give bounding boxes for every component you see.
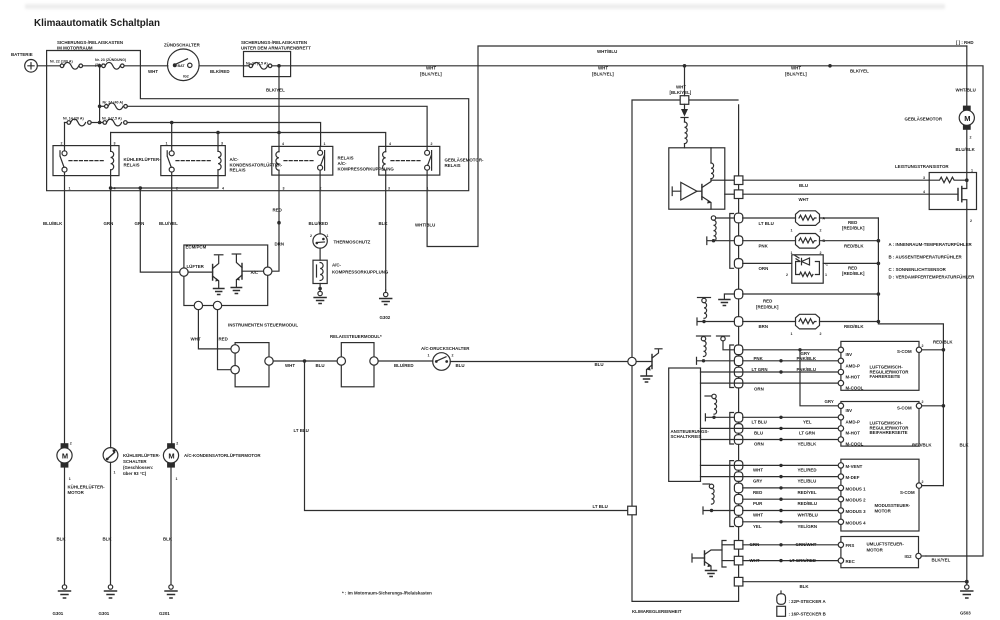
svg-text:RED: RED bbox=[763, 299, 772, 304]
svg-text:YEL/BLK: YEL/BLK bbox=[798, 442, 818, 447]
wire RED ECM to instrument module bbox=[218, 310, 231, 370]
node GRY branch bbox=[798, 348, 801, 351]
node BLK/YEL tap bbox=[277, 64, 281, 68]
pin REC row (square) bbox=[734, 556, 743, 565]
svg-text:WHT: WHT bbox=[285, 363, 295, 368]
node splice modus2 bbox=[779, 498, 782, 501]
node splice RED/DRN bbox=[277, 221, 281, 225]
wire ORN row bbox=[701, 382, 841, 384]
wire row B to return bus bbox=[820, 240, 879, 242]
svg-text:RED: RED bbox=[753, 490, 762, 495]
svg-text:M-COOL: M-COOL bbox=[846, 385, 864, 390]
svg-text:1: 1 bbox=[825, 273, 827, 277]
radiator fan switch S4 bbox=[103, 448, 161, 476]
svg-text:AMD-P: AMD-P bbox=[846, 363, 860, 368]
node splice WHT to BLK/YEL bbox=[828, 64, 832, 68]
svg-text:2: 2 bbox=[922, 400, 924, 404]
svg-text:2: 2 bbox=[820, 229, 822, 233]
pull-up R5 evaporator bbox=[697, 298, 734, 326]
wire MODUS4 row bbox=[743, 521, 841, 523]
svg-text:BLK: BLK bbox=[163, 537, 173, 542]
pin BLU row bbox=[734, 424, 742, 434]
legend 16P connector bbox=[777, 606, 826, 616]
node splice REC bbox=[779, 559, 782, 562]
svg-text:BLK: BLK bbox=[103, 537, 113, 542]
relay K2 A/C-Kondensatorlüfterrelais bbox=[161, 141, 283, 190]
air mix motor driver side U6 bbox=[838, 341, 923, 390]
svg-text:[BLK/YEL]: [BLK/YEL] bbox=[785, 72, 807, 77]
svg-text:2: 2 bbox=[786, 273, 788, 277]
node splice modus1 bbox=[779, 486, 782, 489]
svg-text:M-DEF: M-DEF bbox=[846, 475, 860, 480]
wire output BLU to pin bbox=[725, 179, 734, 181]
node rail2 tap bbox=[98, 121, 102, 125]
svg-text:INSTRUMENTEN STEUERMODUL: INSTRUMENTEN STEUERMODUL bbox=[228, 323, 298, 328]
wire WHT to power transistor bbox=[743, 193, 929, 195]
svg-text:WHT: WHT bbox=[750, 558, 760, 563]
pin sensor B bbox=[734, 236, 742, 246]
ground G503 bbox=[960, 582, 973, 616]
svg-text:Nr. 14 (20 A): Nr. 14 (20 A) bbox=[63, 117, 84, 121]
engine fuse/relay box outline bbox=[47, 51, 469, 191]
wire REC row bbox=[743, 560, 841, 562]
svg-text:WHT: WHT bbox=[426, 66, 436, 71]
svg-text:* : Im Motorraum-Sicherungs-/R: * : Im Motorraum-Sicherungs-/Relaiskaste… bbox=[342, 591, 432, 596]
svg-text:WHT: WHT bbox=[598, 66, 608, 71]
svg-text:KÜHLERLÜFTER-: KÜHLERLÜFTER- bbox=[124, 157, 162, 162]
svg-text:BLU/RED: BLU/RED bbox=[309, 221, 329, 226]
fuse Nr.22 (100A) bbox=[50, 60, 101, 70]
svg-text:[RED/BLK]: [RED/BLK] bbox=[756, 305, 779, 310]
svg-text:3: 3 bbox=[114, 141, 116, 145]
svg-text:BLK/RED: BLK/RED bbox=[210, 69, 230, 74]
wire fan motor to ground bbox=[64, 468, 66, 585]
svg-text:2: 2 bbox=[970, 219, 972, 223]
internal ground sensor ref bbox=[719, 294, 734, 306]
svg-text:1: 1 bbox=[166, 141, 168, 145]
svg-text:LT BLU: LT BLU bbox=[593, 504, 608, 509]
wire GRN relay1 coil to fan switch bbox=[110, 188, 112, 448]
pin unit BLU input bbox=[628, 357, 636, 365]
node splice LT GRN bbox=[779, 370, 782, 373]
svg-text:2: 2 bbox=[922, 480, 924, 484]
svg-text:AMD-P: AMD-P bbox=[846, 419, 860, 424]
pin unit BLK (square) bbox=[734, 577, 743, 586]
ground G302 bbox=[380, 290, 392, 320]
svg-text:RED: RED bbox=[848, 220, 857, 225]
svg-text:A : INNENRAUM-TEMPERATURFÜHLER: A : INNENRAUM-TEMPERATURFÜHLER bbox=[889, 242, 973, 247]
climate control unit box bbox=[632, 100, 739, 601]
wire row C to return bus bbox=[823, 262, 878, 264]
svg-text:KLIMAREGLEREINHEIT: KLIMAREGLEREINHEIT bbox=[632, 609, 682, 614]
svg-text:D : VERDAMPFERTEMPERATURFÜHLER: D : VERDAMPFERTEMPERATURFÜHLER bbox=[889, 275, 976, 280]
svg-text:RED/BLK: RED/BLK bbox=[933, 340, 953, 345]
svg-text:RED/BLU: RED/BLU bbox=[798, 501, 818, 506]
wire drop from ignition feed bbox=[684, 66, 686, 96]
svg-text:A/C-: A/C- bbox=[332, 263, 342, 268]
svg-text:(Geschlossen:: (Geschlossen: bbox=[123, 465, 154, 470]
svg-text:BLK: BLK bbox=[379, 221, 389, 226]
svg-text:G201: G201 bbox=[159, 611, 170, 616]
svg-text:[BLK/YEL]: [BLK/YEL] bbox=[592, 72, 614, 77]
svg-text:1: 1 bbox=[69, 477, 71, 481]
svg-text:Nr. 23 (ZÜNDUNG): Nr. 23 (ZÜNDUNG) bbox=[95, 57, 127, 62]
wire S-COM1 to bus bbox=[922, 349, 943, 351]
relay K1 Kühlerlüfter-Relais bbox=[53, 141, 161, 190]
transistor Q1 ECM fan driver bbox=[188, 255, 224, 295]
svg-text:A/C-DRUCKSCHALTER: A/C-DRUCKSCHALTER bbox=[421, 346, 470, 351]
svg-text:IM MOTORRAUM: IM MOTORRAUM bbox=[57, 46, 93, 51]
wire M-DEF row bbox=[701, 476, 841, 478]
resistor R3 kick-down bbox=[929, 177, 966, 183]
node coil bus left bbox=[109, 186, 113, 190]
svg-text:WHT: WHT bbox=[753, 467, 763, 472]
svg-text:RELAISSTEUERMODUL*: RELAISSTEUERMODUL* bbox=[330, 334, 382, 339]
pin LT BLU row bbox=[734, 413, 742, 423]
svg-text:PUR: PUR bbox=[753, 501, 763, 506]
svg-text:GRN/WHT: GRN/WHT bbox=[796, 542, 817, 547]
node splice LT BLU bbox=[779, 416, 782, 419]
pin ORN2 row bbox=[734, 435, 742, 445]
node splice BLU bbox=[779, 427, 782, 430]
svg-text:S-COM: S-COM bbox=[897, 349, 912, 354]
svg-text:C : SONNENLICHTSENSOR: C : SONNENLICHTSENSOR bbox=[889, 267, 947, 272]
wire relay3 coil feed bbox=[278, 133, 280, 147]
node splice FRS bbox=[779, 543, 782, 546]
ground G301 b bbox=[99, 585, 117, 616]
svg-text:BLU: BLU bbox=[754, 430, 763, 435]
svg-text:RED/YEL: RED/YEL bbox=[798, 490, 817, 495]
sensor pull-up R4 bbox=[711, 216, 734, 241]
instrument control module U3 bbox=[228, 323, 298, 387]
svg-text:WHT: WHT bbox=[791, 66, 801, 71]
bracket group1 connector bbox=[730, 345, 734, 388]
node pull-up to PNK row bbox=[712, 239, 715, 242]
fuse Nr.14 (20A) bbox=[63, 117, 100, 126]
svg-text:YEL/RED: YEL/RED bbox=[798, 467, 817, 472]
svg-text:1: 1 bbox=[791, 332, 793, 336]
svg-text:MODUS 3: MODUS 3 bbox=[846, 509, 867, 514]
svg-text:: 16P-STECKER B: : 16P-STECKER B bbox=[789, 612, 826, 617]
supply bar sensor rows bbox=[707, 237, 735, 245]
svg-text:RED/BLK: RED/BLK bbox=[912, 443, 932, 448]
diode D1 bbox=[681, 104, 688, 122]
svg-text:BLU: BLU bbox=[316, 363, 325, 368]
svg-text:: 22P-STECKER A: : 22P-STECKER A bbox=[789, 599, 827, 604]
thermistor D evaporator temp bbox=[791, 314, 822, 336]
svg-text:PNK: PNK bbox=[754, 356, 764, 361]
svg-text:GRN: GRN bbox=[135, 221, 145, 226]
svg-text:THERMOSCHUTZ: THERMOSCHUTZ bbox=[334, 240, 371, 245]
svg-text:YEL/GRN: YEL/GRN bbox=[798, 524, 818, 529]
svg-text:A/C-KONDENSATORLÜFTERMOTOR: A/C-KONDENSATORLÜFTERMOTOR bbox=[184, 453, 261, 458]
svg-text:BATTERIE: BATTERIE bbox=[11, 52, 33, 57]
svg-text:WHT: WHT bbox=[148, 69, 158, 74]
bracket group3 connector bbox=[730, 461, 734, 527]
svg-text:GRN: GRN bbox=[104, 221, 114, 226]
pin PNK row bbox=[734, 356, 742, 366]
svg-text:2: 2 bbox=[922, 344, 924, 348]
power transistor module U5 bbox=[895, 164, 977, 223]
condenser fan motor M2 bbox=[163, 442, 261, 482]
wire row E to return bus bbox=[820, 321, 879, 323]
resistor R1 dropper bbox=[685, 122, 688, 148]
svg-text:REC: REC bbox=[846, 559, 856, 564]
amplifier circuit box bbox=[669, 148, 725, 209]
wire BLK relay4 coil to ground bbox=[385, 175, 387, 290]
pin MODUS4 row bbox=[734, 517, 742, 527]
pull-up R7 GRY feed bbox=[717, 336, 735, 350]
svg-text:BLU/RED: BLU/RED bbox=[394, 363, 414, 368]
svg-text:KÜHLERLÜFTER-: KÜHLERLÜFTER- bbox=[68, 485, 106, 490]
svg-text:UNTER DEM ARMATURENBRETT: UNTER DEM ARMATURENBRETT bbox=[241, 46, 311, 51]
node LT BLU tap bbox=[303, 359, 307, 363]
svg-text:RED: RED bbox=[219, 337, 228, 342]
mode control motor U8 bbox=[838, 459, 923, 531]
wire WHT ECM to instrument module bbox=[198, 310, 231, 349]
wire condenser fan to ground bbox=[170, 468, 172, 585]
wire LT BLU row bbox=[743, 416, 841, 418]
wire MODUS2 row bbox=[743, 498, 841, 500]
svg-text:LT BLU: LT BLU bbox=[759, 221, 774, 226]
fuse Nr.24 (40A) bbox=[100, 101, 128, 110]
wire BLU/RED relay3 to thermoschutz bbox=[319, 175, 321, 234]
sensor legend bbox=[889, 242, 976, 280]
wire BLU/YEL relay2 to condenser fan bbox=[171, 176, 173, 444]
A/C compressor clutch coil L1 bbox=[313, 260, 389, 288]
svg-text:BLK: BLK bbox=[960, 443, 970, 448]
pin ECM WHT out bbox=[194, 301, 202, 309]
svg-text:SCHALTER: SCHALTER bbox=[123, 459, 147, 464]
resistor R2 pull-up bbox=[711, 148, 714, 179]
wire RED/DRN relay3 coil to ECM bbox=[272, 175, 279, 271]
node clutch ground bbox=[318, 287, 322, 291]
ECM/PCM U2 bbox=[180, 245, 272, 306]
svg-text:A/C-: A/C- bbox=[338, 161, 348, 166]
wire FRS row bbox=[743, 544, 841, 546]
svg-text:RED/BLK: RED/BLK bbox=[844, 324, 864, 329]
svg-text:RED: RED bbox=[273, 208, 282, 213]
node relay2 coil tap bbox=[216, 131, 220, 135]
svg-text:MODUS 4: MODUS 4 bbox=[846, 520, 867, 525]
svg-text:LT BLU: LT BLU bbox=[294, 428, 309, 433]
wire BLU row bbox=[701, 427, 841, 429]
recirculation motor U9 bbox=[838, 537, 921, 568]
node row E return bbox=[877, 320, 881, 324]
svg-text:GEBLÄSEMOTOR: GEBLÄSEMOTOR bbox=[905, 117, 943, 122]
pin ECM RED out bbox=[213, 301, 221, 309]
node drop to climate unit bbox=[683, 64, 687, 68]
svg-text:MODUSSTEUER-: MODUSSTEUER- bbox=[875, 503, 911, 508]
pin unit LT BLU (square) bbox=[628, 506, 637, 515]
sunlight sensor C bbox=[786, 255, 829, 283]
svg-text:KOMPRESSORKUPPLUNG: KOMPRESSORKUPPLUNG bbox=[332, 270, 389, 275]
wire fan switch to ground bbox=[110, 462, 112, 584]
pin FRS row (square) bbox=[734, 541, 743, 550]
svg-text:MOTOR: MOTOR bbox=[875, 509, 892, 514]
svg-text:S-COM: S-COM bbox=[897, 406, 912, 411]
svg-text:S-COM: S-COM bbox=[900, 490, 915, 495]
svg-text:[RED/BLK]: [RED/BLK] bbox=[842, 226, 865, 231]
pin M-VENT row bbox=[734, 461, 742, 471]
svg-text:YEL/BLU: YEL/BLU bbox=[798, 479, 817, 484]
svg-text:MODUS 1: MODUS 1 bbox=[846, 486, 867, 491]
transistor Q3 output bbox=[702, 179, 725, 210]
wire vertical feed x99.6 bbox=[99, 66, 101, 123]
node splice m-def bbox=[779, 475, 782, 478]
svg-text:BRN: BRN bbox=[759, 324, 769, 329]
svg-text:M-HOT: M-HOT bbox=[846, 375, 861, 380]
svg-text:BLU/BLK: BLU/BLK bbox=[43, 221, 63, 226]
wire row C bbox=[743, 262, 792, 264]
wire WHT/BLU relay4 up to blower feed bbox=[427, 46, 967, 247]
svg-text:WHT/BLU: WHT/BLU bbox=[415, 223, 435, 228]
wire S-COM2 to bus bbox=[922, 405, 943, 407]
svg-text:BLK: BLK bbox=[57, 537, 67, 542]
node coil bus ECM tap bbox=[139, 186, 143, 190]
svg-text:[ ] : RHD: [ ] : RHD bbox=[956, 40, 974, 45]
pin ORN row bbox=[734, 378, 742, 388]
wire GRN to ECM fan pin bbox=[140, 188, 179, 272]
svg-text:G302: G302 bbox=[380, 315, 391, 320]
wire REC stub bbox=[722, 560, 734, 562]
pin sensor E bbox=[734, 317, 742, 327]
svg-text:BLK: BLK bbox=[800, 584, 810, 589]
svg-text:MOTOR: MOTOR bbox=[68, 490, 85, 495]
svg-text:LT GRN: LT GRN bbox=[799, 430, 815, 435]
svg-text:RELAIS: RELAIS bbox=[124, 163, 140, 168]
svg-text:1: 1 bbox=[971, 169, 973, 173]
svg-text:G301: G301 bbox=[53, 611, 64, 616]
wire relay2 contact feed bbox=[171, 123, 173, 147]
node splice PNK bbox=[779, 359, 782, 362]
svg-text:BLU: BLU bbox=[456, 363, 465, 368]
transistor Q4 power FET bbox=[929, 180, 967, 209]
svg-text:FAHRERSEITE: FAHRERSEITE bbox=[870, 374, 901, 379]
svg-text:2: 2 bbox=[61, 141, 63, 145]
wire LT GRN row bbox=[701, 371, 841, 373]
pin GRY row bbox=[734, 345, 742, 355]
svg-text:1: 1 bbox=[327, 234, 329, 238]
svg-text:IG2: IG2 bbox=[183, 75, 189, 79]
pin MODUS2 row bbox=[734, 494, 742, 504]
svg-text:G301: G301 bbox=[99, 611, 110, 616]
svg-text:WHT/BLU: WHT/BLU bbox=[597, 49, 617, 54]
pin unit WHT out (square) bbox=[734, 190, 743, 199]
svg-text:BAT: BAT bbox=[178, 64, 186, 68]
wire row A to thermistor bbox=[743, 217, 796, 219]
wire relay1 coil feed bbox=[110, 133, 112, 147]
bracket group4 connector bbox=[722, 541, 726, 568]
legend 22P connector bbox=[777, 591, 827, 604]
pin unit BLU out (square) bbox=[734, 176, 743, 185]
svg-text:BLU/BLK: BLU/BLK bbox=[956, 147, 976, 152]
svg-text:MOTOR: MOTOR bbox=[867, 547, 884, 552]
svg-text:UMLUFTSTEUER-: UMLUFTSTEUER- bbox=[867, 541, 905, 546]
bracket group2 connector bbox=[730, 413, 734, 445]
svg-text:Klimaautomatik Schaltplan: Klimaautomatik Schaltplan bbox=[34, 18, 160, 29]
svg-text:4: 4 bbox=[389, 142, 391, 146]
svg-text:A/C-: A/C- bbox=[230, 157, 240, 162]
wire sensor return bus bbox=[878, 218, 943, 486]
svg-text:MODUS 2: MODUS 2 bbox=[846, 498, 867, 503]
fuse Nr.3 (7,5A) bbox=[100, 117, 128, 126]
fuse Nr.34 (7,5A) bbox=[244, 62, 291, 70]
node row C return bbox=[877, 262, 881, 266]
svg-text:3: 3 bbox=[388, 187, 390, 191]
svg-text:[BLK/YEL]: [BLK/YEL] bbox=[670, 90, 692, 95]
svg-text:SICHERUNGS-/RELAISKASTEN: SICHERUNGS-/RELAISKASTEN bbox=[241, 40, 307, 45]
node row D return bbox=[877, 292, 881, 296]
svg-text:ORN: ORN bbox=[759, 266, 769, 271]
svg-text:RED: RED bbox=[848, 266, 857, 271]
wire BLU to power transistor bbox=[743, 179, 929, 181]
svg-text:3: 3 bbox=[283, 187, 285, 191]
wire IG2 BLK/YEL bbox=[922, 555, 926, 557]
svg-text:LT GRN: LT GRN bbox=[752, 367, 768, 372]
svg-text:ORN: ORN bbox=[754, 387, 764, 392]
scan artifact band bbox=[25, 4, 945, 9]
wire PNK row bbox=[743, 360, 841, 362]
air mix motor passenger side U7 bbox=[838, 400, 923, 446]
pin MODUS1 row bbox=[734, 483, 742, 493]
pin sensor D ref bbox=[734, 289, 742, 299]
svg-text:2: 2 bbox=[70, 442, 72, 446]
fuse Nr.23 (Zündung) bbox=[95, 57, 168, 69]
control circuit box bbox=[669, 368, 710, 481]
svg-text:BLK/YEL: BLK/YEL bbox=[266, 88, 285, 93]
svg-text:1: 1 bbox=[324, 142, 326, 146]
pull-up R9 group3 bbox=[703, 484, 734, 514]
pin sensor C bbox=[734, 259, 742, 269]
relay K3 A/C-Kompressorkupplung bbox=[272, 142, 395, 191]
svg-text:ZÜNDSCHALTER: ZÜNDSCHALTER bbox=[164, 43, 201, 48]
svg-text:LT GRN/RED: LT GRN/RED bbox=[790, 558, 817, 563]
wire BLK/YEL drop to relay rail bbox=[278, 66, 280, 133]
svg-text:BLU: BLU bbox=[595, 362, 604, 367]
svg-text:1: 1 bbox=[176, 477, 178, 481]
wire instrument module to relay module bbox=[273, 360, 341, 362]
node row B return bbox=[877, 239, 881, 243]
bracket sensor connector bbox=[730, 214, 734, 269]
svg-text:über 93 °C): über 93 °C) bbox=[123, 471, 147, 476]
wire relay module to pressure switch bbox=[378, 360, 433, 362]
svg-text:M: M bbox=[168, 451, 174, 460]
node splice modus4 bbox=[779, 520, 782, 523]
wire M-VENT row bbox=[701, 464, 841, 466]
svg-text:M: M bbox=[62, 451, 68, 460]
pin MODUS3 row bbox=[734, 506, 742, 516]
wire rail3 coils BLK/YEL bbox=[111, 133, 386, 147]
svg-text:PNK/BLU: PNK/BLU bbox=[797, 367, 817, 372]
dash fuse box outline bbox=[244, 52, 291, 77]
node BLK ground junction bbox=[965, 580, 969, 584]
svg-text:3: 3 bbox=[221, 141, 223, 145]
svg-text:GRY: GRY bbox=[753, 479, 762, 484]
wire BLK bus down right side bbox=[966, 210, 968, 582]
svg-text:I5V: I5V bbox=[846, 352, 853, 357]
svg-text:[BLK/YEL]: [BLK/YEL] bbox=[420, 72, 442, 77]
svg-text:[RED/BLK]: [RED/BLK] bbox=[842, 271, 865, 276]
transistor Q2 ECM A/C driver bbox=[231, 254, 263, 294]
svg-text:2: 2 bbox=[431, 142, 433, 146]
ground G301 a bbox=[53, 585, 71, 616]
transistor Q6 pressure switch input bbox=[636, 349, 662, 382]
svg-text:KÜHLERLÜFTER-: KÜHLERLÜFTER- bbox=[123, 453, 161, 458]
wire BLK bottom bbox=[743, 581, 967, 583]
ignition switch SW1 bbox=[164, 43, 244, 81]
pin unit power (square) bbox=[680, 96, 689, 105]
